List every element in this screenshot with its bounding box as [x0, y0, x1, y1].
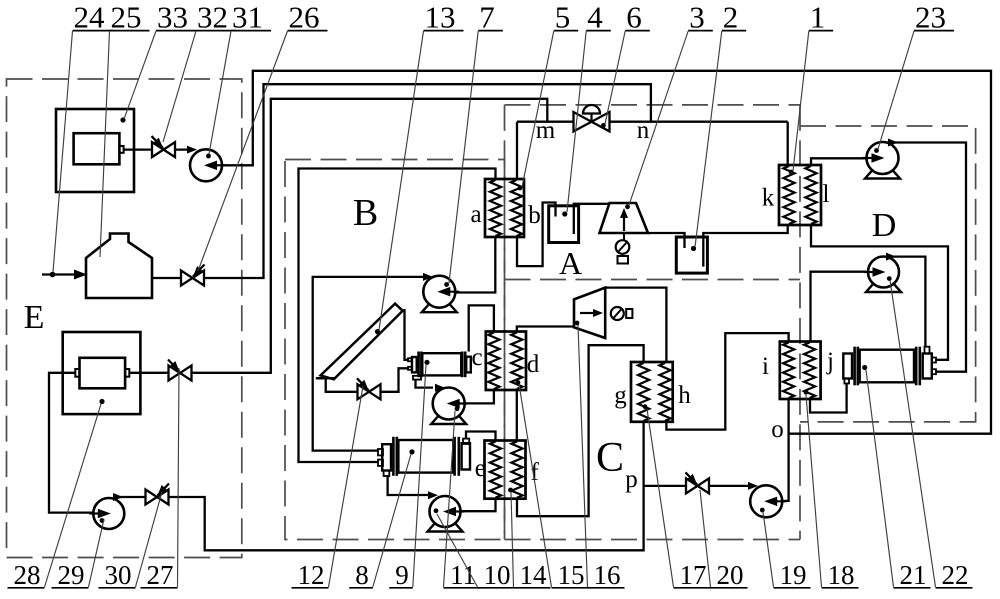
wire pump 11 outlet to c coil bottom — [463, 390, 494, 403]
underline 21 — [894, 587, 931, 589]
leader 32 — [163, 31, 196, 142]
wire collector 13 bottom to valve 12 to cylinder 9 — [326, 368, 408, 392]
leader 18 — [806, 395, 822, 587]
node h — [678, 382, 691, 409]
underline 9 — [389, 587, 413, 589]
heat exchanger g/h — [631, 362, 673, 422]
heater 33 outer box — [56, 109, 134, 192]
label 11 — [450, 560, 476, 590]
dashed box A bottom / C top edge — [505, 279, 801, 281]
wire tank 2 right tube to k coil bottom — [703, 225, 787, 267]
underline 13 — [424, 30, 464, 32]
underline 23 — [914, 30, 954, 32]
wire cylinder 8 bottom nub to pump 10 — [388, 476, 432, 496]
node o — [771, 416, 784, 443]
leader 28 — [45, 404, 102, 587]
wire k coil top — [787, 122, 789, 165]
svg-text:C: C — [596, 435, 624, 481]
leader 29 — [89, 519, 105, 587]
underline 17 — [674, 587, 711, 589]
label 9 — [395, 560, 409, 590]
svg-text:32: 32 — [197, 0, 228, 35]
wire h coil bottom to i coil top — [666, 333, 788, 430]
dashed box B — [285, 160, 505, 540]
svg-text:3: 3 — [689, 0, 705, 35]
svg-text:11: 11 — [450, 560, 476, 590]
node n — [637, 117, 650, 144]
underline 24 — [73, 30, 113, 32]
svg-text:14: 14 — [520, 560, 548, 590]
wire furnace inlet — [42, 273, 84, 275]
pump 10 — [428, 491, 465, 531]
label 14 — [520, 560, 548, 590]
leader 9 — [413, 365, 426, 587]
wire d coil top to compressor 16 inlet — [517, 327, 574, 332]
pump 29 — [89, 493, 124, 529]
label 12 — [298, 560, 325, 590]
solar collector 13 — [316, 304, 403, 380]
heat exchanger a/b — [485, 179, 524, 237]
underline 31 — [231, 30, 271, 32]
node l — [823, 181, 830, 208]
label 19 — [780, 560, 807, 590]
wire heater 33 to valve 32 to pump 31 — [124, 148, 192, 150]
pump 31 — [187, 146, 226, 182]
leader 11 — [444, 411, 456, 587]
leader 2 — [695, 31, 722, 247]
svg-text:l: l — [823, 181, 830, 208]
svg-text:30: 30 — [105, 560, 132, 590]
dot in cylinder 9 — [424, 360, 429, 365]
valve 26 — [181, 265, 205, 286]
node k — [762, 185, 775, 212]
mark on g coil — [643, 404, 648, 409]
underline 7 — [478, 30, 503, 32]
svg-text:j: j — [826, 348, 834, 375]
dot in heater 33 — [120, 117, 125, 122]
svg-text:i: i — [762, 353, 769, 380]
underline 3 — [688, 30, 713, 32]
label 17 — [680, 560, 707, 590]
leader 12 — [329, 386, 364, 587]
node j — [826, 348, 834, 375]
label 2 — [723, 0, 739, 35]
wire pump 10 to e coil bottom — [459, 499, 496, 512]
label 13 — [425, 0, 456, 35]
svg-text:29: 29 — [58, 560, 85, 590]
label 21 — [900, 560, 927, 590]
leader 13 — [379, 31, 424, 330]
leader 21 — [866, 370, 894, 587]
leader 27 — [178, 368, 180, 587]
underline 32 — [196, 30, 236, 32]
wire pump 23 to cylinder 21 lower nub — [890, 143, 966, 372]
leader 16 — [578, 325, 588, 587]
mark on b coil — [518, 186, 523, 191]
label 1 — [810, 0, 826, 35]
leader 33 — [124, 31, 156, 119]
valve 32 — [152, 136, 176, 157]
svg-text:1: 1 — [810, 0, 826, 35]
svg-text:e: e — [475, 455, 486, 482]
leader 24 — [53, 31, 73, 272]
svg-text:A: A — [559, 245, 582, 281]
mark on f coil — [508, 488, 513, 493]
label 26 — [289, 0, 320, 35]
label 20 — [717, 560, 744, 590]
tank 2 — [676, 237, 707, 273]
wire cylinder 9 bottom nub to pump 11 — [416, 379, 434, 387]
label region C — [596, 435, 624, 481]
wire compressor 16 outlet to h coil top — [605, 288, 666, 362]
svg-text:d: d — [527, 351, 540, 378]
label 25 — [111, 0, 142, 35]
svg-text:2: 2 — [723, 0, 739, 35]
unit 28 inner box — [75, 358, 129, 389]
svg-text:p: p — [625, 466, 638, 493]
node e — [475, 455, 486, 482]
mark on k coil — [789, 170, 794, 175]
node a — [470, 201, 481, 228]
leader 20 — [700, 490, 711, 587]
dot in tank 5 — [562, 211, 567, 216]
mark on j coil — [804, 390, 809, 395]
label 30 — [105, 560, 132, 590]
node c — [471, 344, 482, 371]
underline 29 — [52, 587, 89, 589]
svg-text:13: 13 — [425, 0, 456, 35]
svg-text:k: k — [762, 185, 775, 212]
label 5 — [555, 0, 571, 35]
valve 30 — [146, 484, 170, 505]
storage cylinder 8 — [378, 437, 470, 476]
label 24 — [74, 0, 106, 35]
underline 8 — [349, 587, 373, 589]
dashed box C bottom edge — [505, 539, 801, 541]
svg-text:B: B — [353, 192, 378, 234]
label 10 — [484, 560, 511, 590]
label 6 — [626, 0, 642, 35]
label 3 — [689, 0, 705, 35]
svg-text:33: 33 — [157, 0, 188, 35]
underline 20 — [711, 587, 748, 589]
label region E — [24, 299, 45, 336]
wire l coil bottom to cylinder 21 upper nub — [811, 225, 948, 360]
svg-text:D: D — [872, 207, 897, 244]
dot in cylinder 8 — [409, 449, 414, 454]
wire motor 28 to valve 27 to node m — [129, 99, 547, 373]
dashed box D — [800, 126, 976, 422]
svg-text:c: c — [471, 344, 482, 371]
underline 27 — [141, 587, 178, 589]
wire f coil bottom to g coil top — [517, 345, 644, 516]
leader 1 — [793, 31, 809, 171]
cylinder 21 — [843, 347, 936, 386]
label 33 — [157, 0, 188, 35]
wire turbine exhaust to tank 2 left tube — [648, 233, 685, 248]
dot in tank 2 — [691, 246, 696, 251]
underline 30 — [99, 587, 136, 589]
svg-text:17: 17 — [680, 560, 707, 590]
heat exchanger k/l — [779, 165, 821, 225]
leader 7 — [449, 31, 478, 283]
svg-text:o: o — [771, 416, 784, 443]
arrow furnace inlet — [50, 270, 87, 280]
underline 14 — [514, 587, 551, 589]
valve 27 — [168, 360, 192, 381]
label 31 — [232, 0, 263, 35]
svg-text:22: 22 — [942, 560, 969, 590]
svg-text:5: 5 — [555, 0, 571, 35]
turbine 3 — [600, 203, 649, 264]
svg-text:4: 4 — [587, 0, 603, 35]
leader 14 — [511, 492, 514, 587]
svg-text:15: 15 — [558, 560, 585, 590]
dashed boundary C/D left — [799, 105, 801, 540]
node p — [625, 466, 638, 493]
pump 23 outlet stub — [889, 141, 894, 143]
heat exchanger e/f — [485, 441, 526, 499]
label 4 — [587, 0, 603, 35]
label region A — [559, 245, 582, 281]
svg-text:19: 19 — [780, 560, 807, 590]
node m — [536, 117, 556, 144]
svg-text:16: 16 — [594, 560, 621, 590]
label 23 — [915, 0, 946, 35]
underline 15 — [552, 587, 589, 589]
underline 5 — [554, 30, 578, 32]
leader 26 — [198, 31, 288, 271]
label region B — [353, 192, 378, 234]
heat exchanger c/d — [486, 332, 526, 391]
valve 6 — [574, 105, 610, 131]
svg-text:24: 24 — [74, 0, 106, 35]
svg-text:21: 21 — [900, 560, 927, 590]
heat exchanger i/j — [780, 342, 821, 400]
underline 25 — [110, 30, 150, 32]
dashed boundary A/B/C left — [504, 105, 506, 540]
leader 4 — [567, 31, 586, 212]
heater 33 inner box — [74, 133, 124, 164]
underline 22 — [936, 587, 973, 589]
svg-text:n: n — [637, 117, 650, 144]
underline 18 — [822, 587, 859, 589]
svg-text:27: 27 — [147, 560, 174, 590]
svg-text:9: 9 — [395, 560, 409, 590]
wire l coil top to pump 23 — [811, 158, 866, 165]
label 16 — [594, 560, 621, 590]
dashed box A top edge — [505, 104, 801, 106]
leader 6 — [605, 31, 625, 124]
valve 12 — [357, 378, 381, 399]
wire furnace to valve 26 to node n — [152, 84, 651, 278]
node d — [527, 351, 540, 378]
underline 19 — [774, 587, 811, 589]
label region D — [872, 207, 897, 244]
pump 22 — [864, 253, 901, 292]
svg-text:g: g — [614, 382, 627, 409]
wire collector 13 top to cylinder 9 upper nub — [405, 309, 409, 360]
wire pump 29 to valve 30 long bottom run to node p — [115, 422, 644, 551]
svg-text:6: 6 — [626, 0, 642, 35]
label 29 — [58, 560, 85, 590]
underline 28 — [8, 587, 45, 589]
node g — [614, 382, 627, 409]
wire node p branch to valve 17 to pump 19 — [644, 485, 751, 487]
node i — [762, 353, 769, 380]
svg-text:a: a — [470, 201, 481, 228]
underline 6 — [625, 30, 650, 32]
leader 31 — [209, 31, 231, 154]
wire a coil top to cylinder 8 lower-left nub — [299, 169, 496, 463]
svg-text:7: 7 — [479, 0, 495, 35]
leader 22 — [890, 280, 936, 587]
leader 25 — [100, 31, 110, 257]
dashed box E — [7, 79, 242, 558]
svg-text:m: m — [536, 117, 556, 144]
underline 2 — [722, 30, 746, 32]
label 32 — [197, 0, 228, 35]
svg-text:18: 18 — [828, 560, 855, 590]
label 7 — [479, 0, 495, 35]
svg-text:23: 23 — [915, 0, 946, 35]
label 27 — [147, 560, 174, 590]
label 8 — [355, 560, 369, 590]
tank 5 — [549, 206, 579, 243]
leader 19 — [763, 512, 774, 587]
svg-text:E: E — [24, 299, 45, 336]
furnace 25 — [86, 234, 152, 299]
wire b coil top — [516, 122, 518, 179]
wire pump 31 outer loop to node o — [221, 71, 991, 434]
wire box 28 left to pump 29 — [49, 373, 96, 513]
label 28 — [14, 560, 41, 590]
compressor 16 — [574, 288, 632, 338]
dot in unit 28 — [99, 399, 104, 404]
node f — [531, 459, 540, 486]
svg-text:31: 31 — [232, 0, 263, 35]
mark on d coil — [516, 380, 521, 385]
wire pump 22 to cylinder 21 top — [888, 257, 925, 347]
underline 4 — [586, 30, 611, 32]
svg-text:20: 20 — [717, 560, 744, 590]
svg-text:25: 25 — [111, 0, 142, 35]
label 15 — [558, 560, 585, 590]
leader 23 — [878, 31, 914, 149]
svg-text:26: 26 — [289, 0, 320, 35]
wire b coil bottom to tank 5 — [517, 203, 556, 267]
leader 10 — [437, 514, 478, 587]
svg-text:h: h — [678, 382, 691, 409]
underline 11 — [444, 587, 481, 589]
leader 3 — [629, 31, 688, 205]
underline 10 — [478, 587, 515, 589]
wire cylinder 9 right to c coil top — [469, 305, 494, 351]
leader 30 — [136, 492, 163, 587]
pump 11 — [431, 384, 469, 424]
svg-text:10: 10 — [484, 560, 511, 590]
unit 28 outer box — [63, 332, 141, 414]
svg-text:8: 8 — [355, 560, 369, 590]
wire cylinder 21 bottom to j coil bottom — [810, 384, 847, 413]
svg-text:12: 12 — [298, 560, 325, 590]
storage cylinder 9 — [408, 352, 471, 380]
wire j coil top to pump 22 — [811, 272, 867, 342]
pump 7 — [422, 273, 460, 312]
underline 1 — [809, 30, 833, 32]
dot on collector 13 — [375, 329, 380, 334]
wire m-n line with valve 6 — [517, 121, 788, 123]
leader 5 — [522, 31, 554, 187]
underline 16 — [588, 587, 625, 589]
pump 23 — [863, 139, 901, 179]
node b — [528, 202, 541, 229]
underline 26 — [288, 30, 328, 32]
underline 33 — [156, 30, 196, 32]
pump 19 — [748, 482, 786, 517]
label 22 — [942, 560, 969, 590]
wire cylinder 8 upper-left nub to pump 7 inlet — [313, 277, 424, 451]
underline 12 — [292, 587, 329, 589]
valve 17 — [686, 472, 710, 493]
wire tank 5 outlet tube to turbine 3 — [574, 204, 610, 234]
wire i coil bottom through node o to pump 19 — [770, 399, 789, 501]
leader 8 — [373, 454, 411, 587]
wire d coil bottom to f coil top — [516, 390, 518, 441]
svg-text:b: b — [528, 202, 541, 229]
wire pump 7 outlet to a coil bottom — [455, 237, 495, 293]
dot in cylinder 21 — [862, 365, 867, 370]
label 18 — [828, 560, 855, 590]
leader 15 — [519, 384, 552, 587]
svg-text:28: 28 — [14, 560, 41, 590]
wire cylinder 8 right top to e coil top — [466, 432, 496, 441]
leader 17 — [647, 409, 674, 587]
